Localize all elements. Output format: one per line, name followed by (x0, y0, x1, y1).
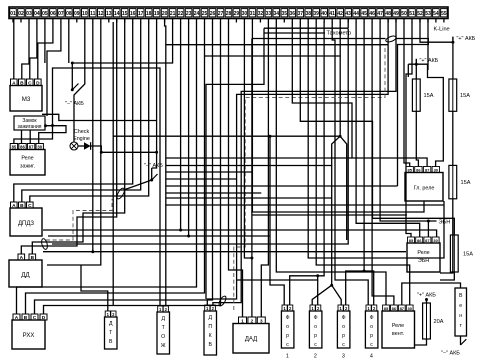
svg-text:Ф: Ф (286, 315, 290, 321)
wire knock shield drain to ground (124, 180, 152, 190)
svg-text:зажиг.: зажиг. (20, 164, 35, 170)
junction ignition switch wire (51, 124, 54, 127)
wire ДАД pin2 long column (251, 39, 253, 318)
svg-text:31: 31 (250, 11, 256, 17)
wire injector3+4 pin2 bus to pin45 (346, 271, 374, 305)
svg-text:23: 23 (186, 11, 192, 17)
svg-text:10: 10 (82, 11, 88, 17)
wire РХХ B to pin25 (26, 22, 205, 314)
battery plus node top right (451, 36, 475, 44)
wire Y top left branch (332, 136, 340, 285)
wire lamp to diode (78, 145, 84, 147)
svg-text:с: с (342, 342, 345, 348)
svg-text:54: 54 (433, 11, 439, 17)
main relay Гл. реле (405, 173, 443, 202)
wire pin21 ground bus (72, 22, 172, 90)
svg-text:1: 1 (241, 318, 244, 323)
fuel pump relay Реле ЭБН (407, 243, 440, 272)
fan relay pin header 85 86 87 30 (383, 305, 413, 311)
svg-text:30: 30 (434, 167, 439, 172)
svg-text:Check: Check (74, 129, 90, 135)
svg-text:04: 04 (34, 11, 40, 17)
wire pin42 to Y top (339, 22, 341, 136)
wire pin37 to fuse4 (300, 22, 454, 235)
wire pin22 down (180, 22, 182, 230)
svg-text:13: 13 (106, 11, 112, 17)
svg-text:1: 1 (286, 354, 289, 360)
svg-text:о: о (286, 324, 289, 330)
svg-text:19: 19 (154, 11, 160, 17)
svg-text:Д: Д (208, 315, 212, 321)
wire bus y280 (237, 279, 318, 281)
svg-text:50: 50 (401, 11, 407, 17)
svg-text:15: 15 (122, 11, 128, 17)
svg-text:Реле: Реле (21, 156, 33, 162)
svg-text:н: н (459, 313, 462, 319)
wire pin41 to injector4 pin1 (332, 22, 368, 305)
wire injector1 pin1 feed (270, 136, 284, 305)
wire bus y186 (166, 185, 398, 187)
svg-text:15А: 15А (461, 180, 471, 186)
coolant temperature sensor ДТОЖ pin header (158, 306, 169, 312)
svg-text:12: 12 (98, 11, 104, 17)
svg-text:34: 34 (274, 11, 280, 17)
wire ignition switch to relay 87 (29, 130, 31, 144)
fan motor Вент (455, 288, 467, 336)
svg-text:45: 45 (361, 11, 367, 17)
wire knock sensor B pair (32, 19, 124, 255)
svg-text:В: В (109, 339, 113, 345)
svg-text:П: П (208, 324, 212, 330)
svg-text:42: 42 (337, 11, 343, 17)
svg-text:11: 11 (90, 11, 96, 17)
ECU connector X1 strip (9, 7, 448, 19)
svg-text:86: 86 (417, 238, 422, 243)
junction pin23 bus (187, 235, 190, 238)
svg-text:"−" АКБ: "−" АКБ (441, 351, 460, 357)
svg-text:3: 3 (342, 354, 345, 360)
svg-text:р: р (342, 333, 345, 339)
wire shield top to staircase (396, 39, 428, 187)
wire bus y179 (166, 178, 237, 180)
wire pin47 to ЭБН junction (380, 22, 428, 221)
coolant temperature sensor ДТОЖ (157, 312, 170, 354)
svg-text:Ф: Ф (314, 315, 318, 321)
svg-text:87: 87 (29, 144, 34, 149)
svg-text:09: 09 (74, 11, 80, 17)
wire pin51 to fuel relay 85 (406, 22, 412, 237)
svg-text:В: В (459, 293, 463, 299)
wire РХХ A to pin24 (17, 22, 197, 314)
junction pin05 ground bus (71, 62, 74, 65)
svg-text:Тахометр: Тахометр (327, 31, 352, 37)
svg-text:86: 86 (416, 167, 421, 172)
wire bus y172 (166, 171, 253, 173)
svg-text:о: о (370, 324, 373, 330)
injector форс 1 (281, 311, 294, 348)
wire injector feed bus y136 (113, 135, 340, 137)
ignition relay pin header 85 86 87 30 (10, 144, 43, 150)
wire pin11 bus y251.7 (43, 251, 406, 253)
svg-text:РХХ: РХХ (23, 333, 35, 339)
wire pin04 to M3 pin C (30, 22, 37, 79)
wire РХХ C to pin26 (35, 22, 213, 314)
svg-text:52: 52 (417, 11, 423, 17)
junction injector1 feed (269, 135, 272, 138)
crank sensor shield dashed (234, 44, 385, 310)
wire bus y165.5 (166, 165, 332, 167)
svg-text:с: с (286, 342, 289, 348)
wire bus y198 (166, 197, 332, 199)
wire pin19 down (152, 22, 157, 168)
main relay pin header 85 86 87 30 (406, 167, 440, 173)
wire knock sensor A pair (21, 19, 116, 255)
wire Y top right branch (340, 136, 347, 240)
svg-text:05: 05 (42, 11, 48, 17)
wire pin46 to fan relay 86 (372, 22, 394, 305)
svg-text:53: 53 (425, 11, 431, 17)
svg-text:15А: 15А (460, 93, 470, 99)
svg-text:38: 38 (306, 11, 312, 17)
wire fan motor to ground (460, 336, 462, 345)
wire bus y205 (166, 204, 444, 206)
air temperature sensor ДТВ (105, 317, 118, 349)
knock sensor shield loop near DD (41, 238, 49, 250)
battery plus node mid right (415, 58, 439, 66)
ignition module M3 (10, 86, 42, 112)
wire ДПКВ pin1 pair (207, 19, 388, 306)
svg-text:Ф: Ф (342, 315, 346, 321)
svg-text:40: 40 (321, 11, 327, 17)
svg-text:Engine: Engine (73, 136, 90, 142)
battery plus node fan fuse (417, 293, 436, 304)
junction pin19 (155, 151, 158, 154)
junction pin11 bus (91, 250, 94, 253)
wire fuse1 to main relay 86 (416, 111, 418, 166)
svg-text:86: 86 (20, 144, 25, 149)
injector форс 4 (365, 311, 378, 348)
svg-text:16: 16 (130, 11, 136, 17)
fan relay Реле вент. (382, 311, 415, 348)
svg-text:87: 87 (425, 167, 430, 172)
wire ДАД pin3 to pin33 (261, 22, 268, 317)
svg-text:с: с (370, 342, 373, 348)
throttle position sensor DPDZ pin header A B C (11, 202, 34, 209)
wire bus y44.7 (166, 44, 388, 46)
wire pin05 to ground bus (44, 22, 46, 63)
svg-text:47: 47 (377, 11, 383, 17)
wire pin43 tachometer (347, 19, 349, 29)
wire pin34 to fan relay 85 (276, 22, 386, 305)
svg-text:43: 43 (345, 11, 351, 17)
Check Engine label (73, 129, 90, 142)
svg-text:ЭБН: ЭБН (418, 258, 429, 264)
svg-text:30: 30 (242, 11, 248, 17)
diode VD1 (84, 142, 91, 150)
svg-text:07: 07 (58, 11, 64, 17)
svg-text:28: 28 (226, 11, 232, 17)
svg-text:06: 06 (50, 11, 56, 17)
wire pin44 to fuel relay 86 (356, 22, 420, 237)
svg-text:21: 21 (170, 11, 176, 17)
wire pin53 K-Line (427, 19, 429, 71)
junction injector2 bus (316, 274, 319, 277)
svg-text:"+" АКБ: "+" АКБ (420, 58, 439, 64)
svg-text:85: 85 (384, 306, 389, 311)
svg-text:87: 87 (400, 306, 405, 311)
wire bus y215 (252, 214, 407, 216)
svg-text:вент.: вент. (392, 331, 404, 337)
knock sensor shield loop (115, 187, 126, 200)
svg-text:ДАД: ДАД (245, 337, 257, 343)
wire pin36 to main relay 87 (292, 22, 427, 167)
wire ДПДЗ C to pin18 (30, 22, 149, 202)
wire pin07 to ignition switch (47, 22, 61, 116)
svg-text:Реле: Реле (392, 323, 404, 329)
svg-text:18: 18 (146, 11, 152, 17)
fuse F1 15A (412, 79, 433, 111)
svg-text:22: 22 (178, 11, 184, 17)
svg-text:ДПДЗ: ДПДЗ (18, 221, 34, 227)
svg-text:37: 37 (298, 11, 304, 17)
fuse F5 20A (423, 303, 444, 339)
svg-text:Д: Д (161, 316, 165, 322)
idle air control RXX pin header A B C D (13, 314, 47, 321)
knock sensor ДД (9, 260, 42, 287)
wire 20A fuse to fan relay (415, 339, 427, 345)
svg-text:36: 36 (290, 11, 296, 17)
wire pin08 to ground bus (68, 22, 70, 63)
svg-text:"+" АКБ: "+" АКБ (417, 293, 436, 299)
battery minus node near M3 (65, 84, 84, 108)
svg-text:Д: Д (109, 321, 113, 327)
wire Y bottom to injector2 pin1 (312, 285, 332, 305)
svg-text:К: К (209, 333, 212, 339)
wire M3 staircase right (42, 114, 157, 120)
wire plus AKB to fuse2 (452, 42, 454, 79)
svg-text:33: 33 (266, 11, 272, 17)
wire ignition switch output to relay 30 (39, 126, 66, 144)
knock sensor shield dashed (46, 199, 112, 240)
svg-text:3: 3 (260, 318, 263, 323)
junction diode wire (100, 151, 103, 154)
wire ignition relay 85 up (14, 126, 53, 144)
injector форс 3 pin header (338, 305, 349, 311)
svg-text:30: 30 (433, 238, 438, 243)
svg-text:20А: 20А (434, 319, 444, 325)
wire pin23 bus y236 (48, 235, 270, 237)
wire bus y193 (166, 192, 261, 194)
fuse F3 15A (449, 165, 471, 198)
wire Y bottom to injector3 pin1 (332, 285, 342, 305)
connector pin stubs (13, 19, 444, 23)
svg-text:20: 20 (162, 11, 168, 17)
wire center ground stair (151, 168, 153, 180)
wire pin01 to M3 pin A (12, 19, 15, 80)
fuel pump relay pin header 85 86 87 30 (408, 237, 440, 243)
svg-text:55: 55 (441, 11, 447, 17)
junction ДАД pin2 column (250, 257, 253, 260)
svg-text:2: 2 (251, 318, 254, 323)
wire pin43 continued left run (52, 29, 348, 245)
svg-text:86: 86 (392, 306, 397, 311)
wire pin11 down (92, 22, 94, 252)
svg-text:35: 35 (282, 11, 288, 17)
svg-text:о: о (314, 324, 317, 330)
wire pin22 bus y230 (43, 230, 437, 237)
crank shield loop top (385, 35, 397, 43)
wire ДТВ pin1 left jog (81, 265, 108, 311)
svg-text:17: 17 (138, 11, 144, 17)
wire pin06 to M3 pin D (38, 22, 53, 79)
svg-text:K-Line: K-Line (434, 27, 450, 33)
svg-text:ДД: ДД (21, 273, 29, 279)
svg-text:Гл. реле: Гл. реле (414, 186, 435, 192)
svg-text:29: 29 (234, 11, 240, 17)
wire ignition switch to relay 86 (21, 130, 23, 144)
wire ДТОЖ pin2 to pin20 (165, 19, 166, 307)
svg-text:р: р (314, 333, 317, 339)
wire ДПКВ pin2 pair (213, 19, 396, 306)
wire fan relay 87 to fan motor (402, 283, 461, 305)
injector форс 1 pin header (282, 305, 293, 311)
svg-text:85: 85 (409, 238, 414, 243)
svg-text:39: 39 (313, 11, 319, 17)
svg-text:08: 08 (66, 11, 72, 17)
junction injector Y bottom (330, 284, 333, 287)
svg-text:03: 03 (26, 11, 32, 17)
wire pin12 left run (47, 22, 101, 265)
svg-text:15А: 15А (463, 252, 473, 258)
svg-text:О: О (161, 334, 165, 340)
wire bus y158 left (166, 157, 352, 159)
svg-text:В: В (208, 342, 212, 348)
wire ДАД pin1 to pin28 (229, 22, 243, 317)
junction injector Y top (339, 135, 342, 138)
wire pin10 to lamp (74, 22, 85, 142)
svg-text:Ж: Ж (161, 343, 166, 349)
wire plus AKB2 to fuse1 (415, 64, 417, 79)
wire main relay output down bus (252, 22, 424, 212)
svg-text:Реле: Реле (417, 250, 429, 256)
junction ignition switch edge (44, 124, 47, 127)
crankshaft position sensor ДПКВ pin header (205, 305, 216, 311)
wire tachometer vertical (206, 28, 264, 299)
svg-text:зажигания: зажигания (18, 124, 42, 130)
svg-text:51: 51 (409, 11, 415, 17)
injector форс 4 pin header (366, 305, 377, 311)
junction pin22 bus (179, 229, 182, 232)
wire diode to pin19 junction (91, 146, 157, 152)
ignition module M3 pin header A B C D (11, 79, 42, 86)
svg-text:Ф: Ф (370, 315, 374, 321)
svg-text:26: 26 (210, 11, 216, 17)
svg-text:44: 44 (353, 11, 359, 17)
wire РХХ D to pin27 (44, 22, 221, 314)
svg-text:30: 30 (407, 306, 412, 311)
wire bus y56 (204, 55, 340, 57)
svg-text:87: 87 (425, 238, 430, 243)
wire pin23 down (188, 22, 190, 236)
wire pin03 to M3 pin B (22, 22, 29, 79)
knock sensor DD pin header A B (18, 254, 36, 261)
wire pin39 to fan relay 30 (316, 22, 410, 305)
svg-text:24: 24 (194, 11, 200, 17)
svg-text:32: 32 (258, 11, 264, 17)
injector форс 2 (309, 311, 322, 348)
wire ДПДЗ B to pin17 (22, 22, 141, 202)
injector форс 3 (337, 311, 350, 348)
svg-text:"+" АКБ: "+" АКБ (457, 36, 476, 42)
wire AKB2 staircase to main relay 30 (428, 64, 444, 166)
svg-text:02: 02 (18, 11, 24, 17)
svg-text:27: 27 (218, 11, 224, 17)
svg-text:о: о (342, 324, 345, 330)
MAP sensor ДАД (233, 324, 269, 354)
wire plus AKB2 bus (408, 63, 427, 65)
svg-text:14: 14 (114, 11, 120, 17)
svg-text:85: 85 (12, 144, 17, 149)
svg-text:15А: 15А (424, 93, 434, 99)
wire ДТВ pin2 long column (112, 22, 114, 306)
svg-text:49: 49 (393, 11, 399, 17)
ignition relay Реле зажиг. (10, 150, 45, 176)
wire AKB2 left drop (407, 64, 409, 77)
wire pin30 to ДАД pin2 column (244, 22, 252, 258)
svg-text:25: 25 (202, 11, 208, 17)
air temperature sensor ДТВ pin header (105, 311, 116, 317)
junction ЭБН wire (427, 220, 430, 223)
battery minus node fan (441, 339, 466, 356)
fuse F2 15A (449, 79, 470, 111)
svg-text:с: с (314, 342, 317, 348)
wire injector2 pin2 to bus (317, 276, 319, 305)
idle air control РХХ (12, 320, 45, 349)
wire bus y33 (264, 32, 325, 34)
svg-text:Замок: Замок (22, 118, 37, 124)
injector форс 2 pin header (310, 305, 321, 311)
svg-text:2: 2 (314, 354, 317, 360)
crank sensor shield loop (218, 295, 228, 307)
wire ДПДЗ A to pin16 (14, 22, 133, 202)
wire fuse4 bottom (440, 272, 454, 280)
wire pin45 to injector bus (363, 22, 365, 271)
fuse F4 15A (450, 235, 473, 272)
wire ДТОЖ pin1 long run (53, 68, 161, 306)
battery minus node center (144, 163, 163, 182)
ignition switch Замок зажигания (14, 116, 45, 130)
svg-text:4: 4 (370, 354, 373, 360)
svg-text:е: е (459, 303, 462, 309)
crankshaft position sensor ДПКВ (204, 311, 217, 355)
svg-text:01: 01 (10, 11, 16, 17)
svg-text:30: 30 (37, 144, 42, 149)
MAP sensor DAD pin header 1 2 3 (239, 317, 266, 324)
wire pin52 to plus AKB (420, 19, 453, 43)
wire bus y38.5 shield row (252, 38, 386, 40)
check engine lamp (70, 142, 78, 150)
wire fuse2 to fuse3 (452, 111, 454, 165)
svg-text:85: 85 (407, 167, 412, 172)
svg-text:р: р (286, 333, 289, 339)
svg-text:41: 41 (329, 11, 335, 17)
wire pin50 to main relay 85 (404, 22, 410, 167)
wire pin38 relay bottom bus (308, 22, 444, 258)
svg-text:М3: М3 (22, 96, 31, 103)
svg-text:48: 48 (385, 11, 391, 17)
svg-text:р: р (370, 333, 373, 339)
wire tachometer bus (264, 27, 348, 29)
